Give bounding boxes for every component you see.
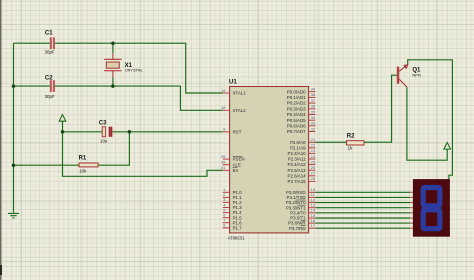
transistor Q1 (NPN) <box>397 65 408 87</box>
svg-text:P0.4/AD4: P0.4/AD4 <box>287 112 306 117</box>
svg-text:P0.7/AD7: P0.7/AD7 <box>287 129 306 134</box>
svg-text:32: 32 <box>311 126 316 131</box>
svg-text:EA: EA <box>233 168 239 173</box>
svg-text:AT89C51: AT89C51 <box>228 236 246 241</box>
wire: R2 right lead to Q1 base <box>364 75 397 142</box>
label R2 <box>347 133 355 139</box>
wire: R1 right lead up to RST node <box>98 131 129 165</box>
ground symbol <box>8 213 19 218</box>
svg-text:34: 34 <box>311 115 316 120</box>
node: ground/R1 junction <box>12 163 16 167</box>
svg-text:R1: R1 <box>79 155 87 161</box>
svg-text:10k: 10k <box>79 169 87 174</box>
wire: Q1 emitter to display common pin <box>408 60 453 180</box>
value C2 30pF <box>45 94 55 99</box>
svg-text:21: 21 <box>311 137 316 142</box>
svg-text:33: 33 <box>311 121 316 126</box>
wire: crystal top lead <box>112 43 114 59</box>
svg-text:17: 17 <box>311 223 316 228</box>
pin numbers: U1 right side <box>311 87 316 229</box>
resistor R2 <box>347 141 365 145</box>
pin numbers: U1 left side <box>221 88 226 228</box>
value C1 30pF <box>45 49 55 54</box>
value U1 AT89C51 <box>228 236 246 241</box>
pin stubs: U1 right side <box>309 92 316 229</box>
svg-text:P2.2/A10: P2.2/A10 <box>288 151 307 156</box>
svg-text:30pF: 30pF <box>45 49 55 54</box>
node: crystal top junction <box>111 41 115 45</box>
svg-text:P1.7: P1.7 <box>233 225 243 230</box>
svg-text:C1: C1 <box>45 30 53 36</box>
wire: P3.0-P3.7 bus to 7-segment display <box>315 192 410 228</box>
svg-text:C2: C2 <box>45 75 53 81</box>
svg-text:NPN: NPN <box>412 73 421 78</box>
svg-text:P3.7/RD: P3.7/RD <box>289 226 306 231</box>
svg-text:PSEN: PSEN <box>233 157 245 162</box>
svg-text:25: 25 <box>311 159 316 164</box>
wire: XTAL2 net drop to pin 18 <box>180 86 222 111</box>
svg-text:P0.0/AD0: P0.0/AD0 <box>287 89 306 94</box>
svg-text:U1: U1 <box>229 79 237 86</box>
svg-text:P2.0/A8: P2.0/A8 <box>290 140 306 145</box>
svg-text:10u: 10u <box>100 139 108 144</box>
svg-text:XTAL2: XTAL2 <box>233 108 247 113</box>
svg-text:38: 38 <box>311 92 316 97</box>
pin names: U1 left side <box>233 91 247 231</box>
svg-text:26: 26 <box>311 165 316 170</box>
capacitor C3 (polarized) <box>102 127 112 137</box>
svg-text:R2: R2 <box>347 133 355 139</box>
power symbol VCC (left) <box>59 115 66 122</box>
svg-text:31: 31 <box>221 165 226 170</box>
resistor R1 <box>79 163 98 167</box>
svg-text:CRYSTAL: CRYSTAL <box>125 68 144 73</box>
wire: R1 left lead to ground rail <box>14 164 80 166</box>
svg-text:35: 35 <box>311 109 316 114</box>
svg-text:19: 19 <box>221 88 226 93</box>
svg-text:P2.1/A9: P2.1/A9 <box>290 145 306 150</box>
wire: XTAL2 net segment (C2 row) <box>14 85 181 87</box>
label C1 <box>45 30 53 36</box>
power symbol VCC (right) <box>444 142 451 149</box>
svg-text:28: 28 <box>311 176 316 181</box>
crystal X1 <box>104 59 121 71</box>
wire: XTAL1 net drop to pin 19 <box>186 43 223 93</box>
label R1 <box>79 155 87 161</box>
svg-text:24: 24 <box>311 154 316 159</box>
svg-text:P0.5/AD5: P0.5/AD5 <box>287 118 306 123</box>
svg-text:P2.4/A12: P2.4/A12 <box>288 162 307 167</box>
label C3 <box>99 121 107 127</box>
capacitor C1 <box>50 37 55 49</box>
svg-text:P0.6/AD6: P0.6/AD6 <box>287 123 306 128</box>
label C2 <box>45 75 53 81</box>
pin stubs: 7-segment display segment pins <box>410 192 413 228</box>
svg-text:P0.2/AD2: P0.2/AD2 <box>287 101 306 106</box>
svg-text:30pF: 30pF <box>45 94 55 99</box>
svg-text:ALE: ALE <box>233 162 241 167</box>
value R2 1k <box>348 146 353 151</box>
svg-text:RST: RST <box>233 129 242 134</box>
value Q1 NPN <box>412 73 421 78</box>
svg-text:P0.1/AD1: P0.1/AD1 <box>287 95 306 100</box>
svg-text:27: 27 <box>311 171 316 176</box>
value R1 10k <box>79 169 87 174</box>
svg-text:29: 29 <box>221 154 226 159</box>
value X1 CRYSTAL <box>125 68 144 73</box>
window left edge <box>0 0 2 280</box>
wire: Q1 collector to VCC arrow (right) <box>407 87 447 160</box>
svg-text:P2.7/A15: P2.7/A15 <box>288 179 307 184</box>
svg-text:39: 39 <box>311 87 316 92</box>
chip U1 body (AT89C51 microcontroller) <box>230 87 309 233</box>
node: ground/C2 junction <box>12 84 16 88</box>
pin names: U1 right side <box>286 89 306 231</box>
7-segment display body <box>413 179 450 237</box>
svg-text:P2.3/A11: P2.3/A11 <box>288 157 306 162</box>
wire: ground bus vertical (left rail) <box>13 43 15 213</box>
svg-text:22: 22 <box>311 143 316 148</box>
node: crystal bottom junction <box>111 84 115 88</box>
capacitor C2 <box>50 80 55 92</box>
svg-text:P2.6/A14: P2.6/A14 <box>288 173 307 178</box>
wire: XTAL1 net top segment (C1 row) <box>14 42 186 44</box>
svg-text:36: 36 <box>311 104 316 109</box>
wire: VCC to RST row (through C3) and on to RST pin 9 <box>63 131 223 133</box>
node: VCC/RST junction <box>61 130 65 134</box>
value C3 10u <box>100 139 108 144</box>
pin stubs: U1 left side <box>223 93 230 228</box>
7-segment display digit 8 <box>423 188 440 229</box>
label U1 <box>229 79 237 86</box>
label X1 <box>125 63 133 69</box>
svg-text:23: 23 <box>311 148 316 153</box>
wire: crystal bottom lead <box>112 71 114 87</box>
svg-text:P2.5/A13: P2.5/A13 <box>288 168 307 173</box>
svg-text:37: 37 <box>311 98 316 103</box>
wire: power arrow stem (left) <box>62 121 64 132</box>
svg-text:18: 18 <box>221 105 226 110</box>
node: RST/R1 junction <box>128 130 132 134</box>
svg-text:P0.3/AD3: P0.3/AD3 <box>287 106 306 111</box>
wire: VCC to EA pin 31 route <box>63 132 223 177</box>
wire: P2.0 pin to R2 left lead <box>315 141 346 143</box>
svg-text:C3: C3 <box>99 121 107 127</box>
svg-text:30: 30 <box>221 160 226 165</box>
label Q1 <box>412 67 421 73</box>
svg-text:XTAL1: XTAL1 <box>233 91 247 96</box>
